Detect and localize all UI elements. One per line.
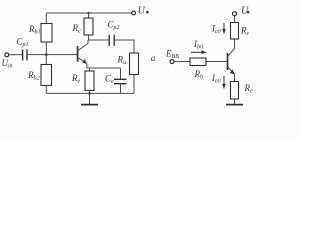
svg-text:Ru: Ru: [117, 55, 127, 67]
resistor RL: [130, 53, 139, 75]
node base junction: [45, 53, 48, 56]
wire input: [9, 54, 23, 56]
terminal Uo: [233, 12, 237, 16]
svg-text:a: a: [151, 53, 156, 63]
capacitor Cp1: [22, 50, 24, 61]
wire Rb2 bottom stub: [45, 86, 47, 94]
wire bottom rail: [46, 92, 134, 94]
wire emitter down to Re: [234, 74, 236, 82]
wire emitter down: [87, 64, 121, 69]
wire Re stub: [89, 68, 91, 71]
svg-text:Re: Re: [244, 83, 254, 95]
ground: [89, 93, 91, 104]
wire Rb1 bottom stub: [45, 42, 47, 55]
wire Cp2 to RL: [114, 40, 134, 53]
svg-text:EBB: EBB: [165, 49, 179, 61]
svg-text:Cp2: Cp2: [108, 20, 120, 32]
wire Ce bottom: [120, 84, 122, 94]
svg-text:Ie0: Ie0: [211, 73, 221, 85]
svg-text:Rc: Rc: [72, 23, 82, 35]
svg-text:Re: Re: [71, 73, 81, 85]
svg-text:U: U: [138, 5, 146, 16]
svg-text:Ic0: Ic0: [211, 24, 221, 36]
terminal Uin: [5, 53, 9, 57]
wire Rb1 top stub: [45, 13, 47, 24]
wire Rb to base: [206, 61, 228, 63]
transistor Q2 collector: [228, 39, 235, 56]
wire Rc bottom to collector node: [88, 35, 90, 40]
node Vcc junction dot: [87, 12, 89, 14]
current arrow Ib: [191, 51, 204, 53]
resistor Rc2: [231, 23, 239, 40]
wire EBB to Rb: [174, 61, 190, 63]
wire RL bottom stub: [133, 75, 135, 94]
transistor Q2 emitter: [228, 67, 234, 73]
wire Re2 bottom stub: [234, 99, 236, 104]
wire Re bottom stub: [89, 91, 91, 94]
transistor Q1 base bar: [77, 46, 79, 62]
wire top rail: [46, 12, 131, 14]
capacitor Ce: [114, 78, 127, 80]
resistor Rb2: [41, 65, 52, 86]
svg-text:Uin: Uin: [2, 58, 13, 70]
svg-text:Rb: Rb: [194, 69, 204, 81]
current arrow Ie: [223, 76, 225, 86]
svg-text:Ib0: Ib0: [193, 39, 203, 51]
svg-text:Ce: Ce: [105, 74, 114, 86]
node ground junction dot: [88, 92, 91, 95]
svg-text:Rc: Rc: [240, 26, 250, 38]
resistor Re: [85, 71, 94, 91]
wire Rc top stub: [88, 13, 90, 18]
svg-text:Rb2: Rb2: [27, 70, 40, 82]
svg-text:U: U: [241, 5, 249, 16]
wire collector node to Cp2: [88, 39, 109, 41]
resistor Rb: [190, 58, 206, 66]
resistor Re2: [231, 82, 239, 100]
wire Cp1 to base: [27, 54, 78, 56]
transistor Q2 base bar: [227, 53, 229, 70]
capacitor Cp2: [108, 35, 110, 46]
current arrow Ic: [223, 23, 225, 31]
terminal U+: [132, 11, 136, 15]
svg-text:Cp1: Cp1: [17, 37, 29, 49]
terminal EBB: [170, 60, 174, 64]
transistor Q1 emitter: [78, 58, 86, 63]
transistor Q1 collector: [78, 40, 88, 51]
wire Rc2 top: [234, 16, 236, 23]
wire Ce top: [120, 68, 122, 79]
resistor Rb1: [41, 24, 52, 43]
resistor Rc: [84, 18, 93, 35]
svg-text:Rb1: Rb1: [28, 24, 41, 36]
wire Rb2 top stub: [45, 55, 47, 65]
ground right: [226, 104, 243, 106]
